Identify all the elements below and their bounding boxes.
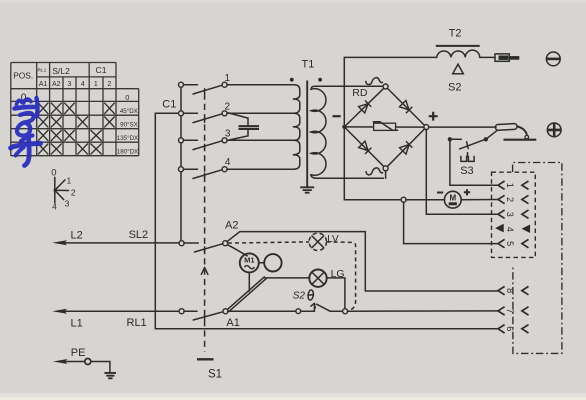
svg-text:2: 2 <box>107 81 111 88</box>
svg-text:RL1: RL1 <box>127 317 147 329</box>
svg-text:1: 1 <box>505 183 515 188</box>
svg-text:A1: A1 <box>226 317 239 329</box>
svg-text:PE: PE <box>71 347 86 359</box>
svg-text:C1: C1 <box>96 65 107 75</box>
svg-text:3: 3 <box>505 212 515 217</box>
svg-text:90°SX: 90°SX <box>120 121 138 128</box>
svg-text:S1: S1 <box>208 368 222 380</box>
svg-text:1: 1 <box>225 73 231 84</box>
svg-text:0: 0 <box>125 93 129 102</box>
svg-text:7: 7 <box>505 308 515 313</box>
svg-text:8: 8 <box>505 288 515 293</box>
svg-text:T1: T1 <box>302 59 315 71</box>
svg-text:S3: S3 <box>460 165 473 177</box>
svg-text:4: 4 <box>81 81 85 88</box>
svg-text:S/L2: S/L2 <box>52 66 70 76</box>
svg-text:POS.: POS. <box>13 70 33 80</box>
svg-text:2: 2 <box>71 187 76 197</box>
svg-text:LV: LV <box>327 234 339 245</box>
svg-text:A1: A1 <box>39 81 48 88</box>
svg-text:3: 3 <box>65 199 70 209</box>
svg-text:2: 2 <box>225 101 231 112</box>
svg-text:45°DX: 45°DX <box>120 108 138 115</box>
svg-text:S2: S2 <box>293 291 306 302</box>
svg-text:A2: A2 <box>225 219 238 231</box>
svg-text:0: 0 <box>51 168 56 179</box>
svg-text:1: 1 <box>94 81 98 88</box>
svg-text:RD: RD <box>352 87 368 99</box>
svg-text:RL1: RL1 <box>38 67 47 73</box>
svg-text:1: 1 <box>67 175 72 185</box>
svg-text:M: M <box>449 194 456 203</box>
svg-text:4: 4 <box>52 202 57 212</box>
svg-text:2: 2 <box>505 197 515 202</box>
svg-text:180°DX: 180°DX <box>117 148 138 155</box>
svg-text:S2: S2 <box>448 81 461 93</box>
svg-text:C1: C1 <box>162 99 176 111</box>
svg-text:SL2: SL2 <box>129 229 149 241</box>
svg-text:6: 6 <box>505 326 515 331</box>
svg-text:5: 5 <box>505 241 515 246</box>
svg-text:3: 3 <box>225 129 231 140</box>
svg-text:4: 4 <box>505 227 515 232</box>
svg-text:3: 3 <box>68 81 72 88</box>
svg-text:A2: A2 <box>52 81 61 88</box>
svg-text:T2: T2 <box>449 28 462 40</box>
svg-text:135°DX: 135°DX <box>117 135 138 142</box>
svg-text:L1: L1 <box>71 318 83 330</box>
svg-text:4: 4 <box>225 157 231 168</box>
svg-text:L2: L2 <box>71 230 83 242</box>
svg-text:M1: M1 <box>244 256 254 265</box>
